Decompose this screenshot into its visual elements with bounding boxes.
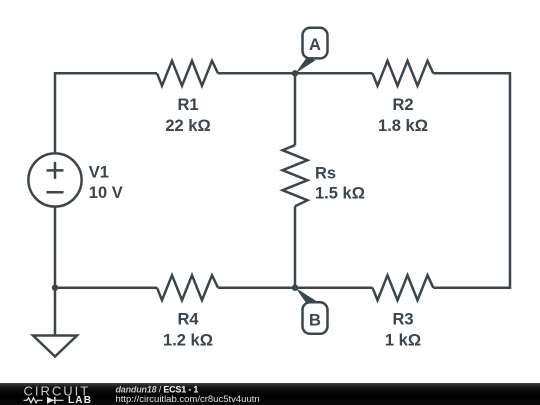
svg-text:1 kΩ: 1 kΩ [385, 331, 421, 349]
svg-text:http://circuitlab.com/cr8uc5tv: http://circuitlab.com/cr8uc5tv4uutn [116, 394, 260, 405]
svg-text:dandun18 / ECS1 - 1: dandun18 / ECS1 - 1 [116, 384, 199, 394]
svg-text:R2: R2 [392, 96, 413, 114]
svg-text:10 V: 10 V [89, 184, 123, 202]
svg-text:1.5 kΩ: 1.5 kΩ [315, 185, 365, 203]
svg-text:1.8 kΩ: 1.8 kΩ [378, 117, 428, 135]
svg-text:22 kΩ: 22 kΩ [165, 117, 210, 135]
svg-text:R1: R1 [177, 96, 198, 114]
resistor Rs [283, 145, 308, 206]
node A pointer wedge [296, 58, 316, 73]
junction node A dot [292, 70, 298, 76]
wire: R2 to right rail down to R3 [433, 73, 510, 287]
svg-text:R4: R4 [177, 310, 199, 328]
junction node B dot [292, 285, 298, 291]
svg-text:B: B [309, 312, 321, 330]
svg-text:Rs: Rs [315, 165, 336, 183]
resistor R2 [373, 61, 434, 86]
CircuitLab logo [24, 384, 93, 405]
wire: junction to ground [54, 288, 57, 336]
svg-text:LAB: LAB [68, 395, 92, 405]
wire: R4 to node B [218, 286, 295, 289]
node B label box [303, 302, 328, 334]
wire: node B to R3 [295, 286, 373, 289]
resistor R3 [373, 275, 434, 300]
node A label box [303, 28, 328, 59]
svg-text:1.2 kΩ: 1.2 kΩ [163, 331, 213, 349]
footer bar [0, 383, 540, 405]
wire: node A to R2 [295, 72, 373, 75]
resistor R4 [157, 275, 218, 300]
wire: Rs to node B [294, 206, 297, 288]
ground [33, 336, 77, 357]
node B pointer wedge [296, 288, 317, 304]
wire: bottom-left junction to R4 [55, 286, 157, 289]
wire: V1 bottom to bottom-left junction [54, 207, 57, 288]
svg-text:V1: V1 [89, 164, 109, 182]
junction bottom-left dot [52, 285, 58, 291]
resistor R1 [157, 61, 218, 86]
wire: R1 to node A [218, 72, 295, 75]
wire: left rail top (V1 top to R1 left lead) [55, 73, 157, 153]
wire: middle rail A to Rs [294, 73, 297, 145]
voltage source V1 [28, 153, 81, 206]
svg-text:A: A [309, 36, 321, 54]
svg-text:R3: R3 [392, 310, 413, 328]
